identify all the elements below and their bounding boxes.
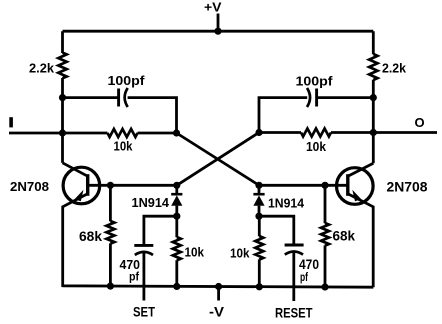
svg-text:2N708: 2N708: [387, 180, 428, 195]
svg-text:-V: -V: [209, 304, 225, 320]
svg-text:100pf: 100pf: [108, 73, 146, 88]
svg-text:RESET: RESET: [275, 305, 313, 321]
svg-text:100pf: 100pf: [296, 74, 334, 89]
svg-text:1N914: 1N914: [132, 195, 170, 210]
svg-text:1N914: 1N914: [268, 196, 305, 211]
svg-text:2.2k: 2.2k: [29, 62, 54, 76]
svg-text:10k: 10k: [185, 245, 205, 260]
svg-text:10k: 10k: [230, 246, 250, 261]
svg-text:pf: pf: [300, 270, 309, 284]
svg-text:O: O: [415, 115, 425, 130]
svg-text:10k: 10k: [306, 139, 327, 154]
svg-text:2N708: 2N708: [10, 179, 49, 194]
svg-text:SET: SET: [133, 304, 155, 320]
svg-text:68k: 68k: [333, 229, 356, 244]
svg-text:+V: +V: [204, 0, 222, 15]
svg-text:68k: 68k: [79, 229, 102, 244]
svg-text:10k: 10k: [114, 139, 134, 154]
svg-text:2.2k: 2.2k: [382, 62, 406, 76]
svg-text:pf: pf: [129, 270, 140, 284]
